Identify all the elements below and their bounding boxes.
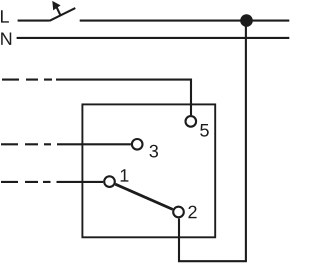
wire from junction down right side: [245, 21, 247, 262]
pin label 2: [188, 206, 196, 219]
net label L: [1, 10, 9, 22]
terminal 2: [173, 207, 184, 218]
wire solid to terminal 3: [57, 143, 131, 145]
switch lever between terminals 1 and 2: [115, 184, 172, 209]
terminal 1: [104, 176, 115, 187]
terminal 5: [186, 116, 197, 127]
wire solid to terminal 5: [56, 80, 191, 116]
wire (dashed) to terminal 5: [2, 79, 52, 81]
wire bottom run to terminal 2: [179, 219, 247, 262]
pin label 3: [149, 145, 158, 158]
junction dot on L: [240, 14, 253, 27]
net label N: [1, 33, 11, 45]
pin label 1: [121, 169, 129, 181]
wire solid to terminal 1: [57, 181, 104, 183]
wire N: [17, 37, 290, 39]
pin label 5: [200, 124, 209, 137]
wire (dashed) to terminal 3: [1, 143, 51, 145]
device box U1 (switch insert outline): [82, 104, 215, 237]
wire L right segment to junction: [80, 20, 290, 22]
terminal 3: [132, 139, 143, 150]
wire (dashed) to terminal 1: [1, 181, 51, 183]
wire L left segment: [18, 20, 50, 22]
switch S1 (external wall-switch contact with actuation arrow): [50, 1, 76, 21]
